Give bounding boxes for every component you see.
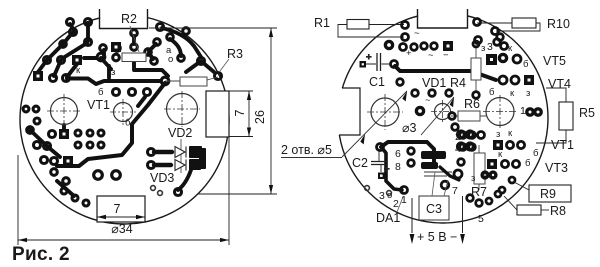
dimension 7 right extensions xyxy=(229,91,253,137)
svg-text:2: 2 xyxy=(455,131,461,143)
board outline circle left xyxy=(20,15,229,224)
label R2 + leader xyxy=(121,12,139,52)
svg-text:DA1: DA1 xyxy=(376,211,400,225)
hole 3 dia5 xyxy=(483,95,517,128)
pin labels right board xyxy=(379,41,539,225)
svg-text:1: 1 xyxy=(520,105,526,117)
svg-text:VT4: VT4 xyxy=(548,77,571,91)
svg-text:R7: R7 xyxy=(471,185,487,199)
svg-text:з: з xyxy=(526,88,530,99)
wire stub ring70 xyxy=(70,24,75,32)
notch bottom left board with dim 7 xyxy=(97,196,145,222)
thick trace loop center right board xyxy=(381,142,434,166)
diode VD2 symbol xyxy=(175,139,186,173)
wire trace VD3 to ring xyxy=(178,170,191,190)
wire trace left low diagonals xyxy=(30,130,60,157)
svg-text:3: 3 xyxy=(379,190,385,202)
square pads left board xyxy=(33,42,121,166)
resistor R1 external + wires xyxy=(314,16,404,37)
slot right side left board xyxy=(206,91,229,137)
polarity symbols xyxy=(406,28,449,106)
pad rings VD area xyxy=(148,149,155,156)
wire trace edge top-right xyxy=(162,28,201,57)
svg-text:2 отв. ⌀5: 2 отв. ⌀5 xyxy=(281,143,332,157)
dimension 26 extension top xyxy=(149,27,277,29)
svg-text:C3: C3 xyxy=(426,202,442,216)
wire trace from ring 88,41 xyxy=(63,43,87,58)
wire trace ring101 to z xyxy=(101,58,111,69)
svg-text:R10: R10 xyxy=(547,17,570,31)
notch top right board xyxy=(418,4,468,28)
wire trace ring 103,48 down xyxy=(102,50,106,56)
svg-text:4: 4 xyxy=(455,143,461,155)
svg-text:б: б xyxy=(489,87,495,98)
slot left side right board xyxy=(334,88,360,135)
resistor R9 external (label in box) + wire xyxy=(514,182,571,202)
pad rings R6 xyxy=(449,113,456,120)
board outline circle right xyxy=(338,13,548,223)
pad rings row y145 xyxy=(34,142,41,149)
dimension dia34 extensions xyxy=(18,137,229,245)
wire lambda trace to R3 pad xyxy=(186,61,214,72)
left board copper traces xyxy=(30,23,214,196)
wire trace hook a-o xyxy=(170,39,181,56)
svg-text:⌀3: ⌀3 xyxy=(402,121,417,135)
dark pad left of hole2 xyxy=(385,41,541,178)
resistor R7 outline vertical xyxy=(474,145,485,190)
pad rings loop 6-8 xyxy=(408,148,415,155)
leader dia3 through hole2 xyxy=(421,97,454,135)
wire trace VD2 stub 1 xyxy=(154,150,172,154)
pad rings top right cluster xyxy=(475,37,482,44)
dimension 26 extension bottom xyxy=(198,193,277,195)
pad rings row y134 xyxy=(49,131,56,138)
svg-text:−: − xyxy=(443,50,449,61)
svg-text:⌀34: ⌀34 xyxy=(111,222,132,236)
wire trace vertical top xyxy=(86,23,90,41)
resistor R4 outline vertical xyxy=(471,44,481,93)
wire trace bottom-left arc inner xyxy=(57,181,74,196)
leader 2otv dia5 through hole1 xyxy=(342,91,407,157)
wire trace chain 157-148-154 xyxy=(149,44,156,59)
svg-text:1: 1 xyxy=(401,194,407,206)
svg-text:з: з xyxy=(481,43,485,54)
pad grid center-left xyxy=(75,130,81,136)
wire trace vertical 134 xyxy=(132,36,136,44)
svg-text:+ 5 В −: + 5 В − xyxy=(417,230,457,244)
mounting hole left (big, crosshair) xyxy=(47,94,81,128)
thin plate lines under blob xyxy=(424,172,452,176)
pad rings VT4 row xyxy=(499,76,507,84)
wire trace ring132 tail xyxy=(138,97,145,106)
label R3 + leader xyxy=(220,47,243,71)
wire trace L below R2 xyxy=(134,62,168,76)
mounting hole left board right (big, crosshair) xyxy=(164,91,200,127)
svg-text:б: б xyxy=(533,148,539,159)
svg-text:C2: C2 xyxy=(352,156,368,170)
svg-text:з: з xyxy=(111,67,115,78)
wire trace vertical x109 xyxy=(107,66,111,78)
resistor R2 outline (white rect on track) xyxy=(122,53,146,62)
svg-text:R6: R6 xyxy=(464,97,480,111)
power +5V wires and arrows xyxy=(410,196,465,244)
svg-text:5: 5 xyxy=(478,213,484,225)
small hole marks bottom left right board xyxy=(365,186,392,196)
svg-text:7: 7 xyxy=(114,202,121,216)
hole center left board xyxy=(110,99,136,125)
svg-text:~: ~ xyxy=(428,50,434,61)
svg-text:о: о xyxy=(168,54,173,65)
capacitor C2 symbol xyxy=(371,150,390,179)
notch top left board xyxy=(100,4,148,29)
svg-text:~: ~ xyxy=(425,95,431,106)
small hole marks oo near VD3 xyxy=(151,186,163,196)
svg-text:R5: R5 xyxy=(579,106,595,120)
wire trace big Z: horizontal y81 then steep diagonal down then staircase left xyxy=(67,79,161,85)
svg-text:R3: R3 xyxy=(227,47,243,61)
svg-text:R2: R2 xyxy=(121,12,137,26)
svg-text:C1: C1 xyxy=(369,75,385,89)
resistor R5 external + wires xyxy=(536,88,595,143)
hole 1 dia5 with axis arrow xyxy=(367,94,403,130)
wire trace VD2 stub 2 xyxy=(154,163,171,167)
svg-text:R9: R9 xyxy=(540,187,556,201)
resistor R8 external + wires xyxy=(504,196,566,218)
thick trace loop left leg xyxy=(382,148,402,190)
diode VD3 symbol xyxy=(175,160,186,171)
pad rings 2-4 rows xyxy=(460,132,467,139)
dimension 26 line xyxy=(270,28,272,194)
pad big pair center-bottom xyxy=(94,171,103,180)
left board pads xyxy=(23,19,221,207)
svg-text:+: + xyxy=(406,48,412,59)
pad rings row under holes xyxy=(412,90,419,97)
thick trace top right board xyxy=(395,66,496,80)
capacitor C1 symbol xyxy=(360,52,392,71)
svg-text:7: 7 xyxy=(452,185,458,197)
pad rings mid-left xyxy=(23,106,29,112)
svg-text:R8: R8 xyxy=(550,204,566,218)
svg-text:R4: R4 xyxy=(450,76,466,90)
svg-text:б: б xyxy=(125,118,131,129)
pad rings R1 entry xyxy=(402,22,409,29)
thick copper near diodes xyxy=(189,146,206,170)
capacitor C3 box + leaders xyxy=(419,172,449,220)
pad rings row y92 xyxy=(113,89,120,96)
svg-text:7: 7 xyxy=(233,109,247,116)
pad rings bridge row xyxy=(400,44,407,51)
svg-text:VD3: VD3 xyxy=(150,171,174,185)
resistor R10 external + wires xyxy=(477,17,570,31)
label DA1 + leader xyxy=(376,197,403,225)
svg-text:VD2: VD2 xyxy=(168,126,192,140)
svg-text:R1: R1 xyxy=(314,16,330,30)
hole 2 dia3 with axis arrow xyxy=(431,100,454,123)
wire trace square77 to ring66 xyxy=(67,64,77,77)
svg-text:3: 3 xyxy=(487,41,493,53)
svg-text:VD1: VD1 xyxy=(422,76,446,90)
svg-text:6: 6 xyxy=(395,148,401,160)
pad rings VT1 right cluster xyxy=(506,141,513,148)
svg-text:VT3: VT3 xyxy=(545,161,568,175)
resistor R6 outline xyxy=(451,111,486,121)
pad rings R4 bottom / top xyxy=(473,41,479,47)
svg-text:26: 26 xyxy=(253,110,267,124)
svg-text:б: б xyxy=(523,59,529,70)
svg-text:VT1: VT1 xyxy=(87,98,110,112)
wire trace 61,59 xyxy=(54,60,61,76)
pad rings R3 row xyxy=(161,77,169,85)
thick blob center xyxy=(421,151,446,169)
pads right board xyxy=(377,19,525,207)
svg-text:з: з xyxy=(496,129,500,140)
pad rings R10 entry xyxy=(474,19,481,26)
wire trace square 97,57 right xyxy=(84,56,96,60)
wire trace diagonal chain top-left xyxy=(38,32,73,72)
svg-text:б: б xyxy=(525,158,531,169)
svg-text:VT5: VT5 xyxy=(543,54,566,68)
dimension dia34 line xyxy=(18,239,229,241)
wire trace square1 up xyxy=(62,125,66,130)
svg-text:2: 2 xyxy=(393,198,399,210)
svg-text:о: о xyxy=(387,190,392,201)
pad rings bottom-left xyxy=(41,157,48,164)
svg-text:8: 8 xyxy=(395,161,401,173)
square pads right board xyxy=(443,41,534,169)
svg-text:VT1: VT1 xyxy=(551,138,574,152)
wire trace Z steep diagonal xyxy=(57,83,165,166)
svg-text:+: + xyxy=(366,52,372,63)
dimension 7 right line xyxy=(248,91,250,137)
thick trace blob to pad xyxy=(440,167,459,180)
pad rings bottom 5 cluster xyxy=(467,195,474,202)
resistor R3 outline with wires xyxy=(165,77,218,86)
pad rings top-center xyxy=(157,24,164,31)
pad rings top-left cluster xyxy=(67,19,74,26)
svg-text:б: б xyxy=(98,87,104,98)
pad trace ends xyxy=(391,61,398,68)
svg-text:з: з xyxy=(471,173,475,184)
svg-text:~: ~ xyxy=(414,28,420,39)
pad rings near R7 xyxy=(458,159,465,166)
svg-text:Рис. 2: Рис. 2 xyxy=(12,244,70,265)
